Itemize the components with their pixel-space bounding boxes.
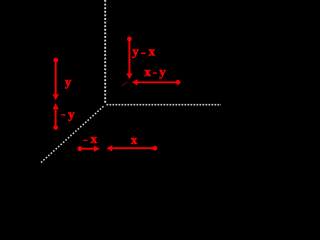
vector -y (upward arrow) <box>52 103 58 130</box>
faint streak below x-y arrowhead <box>121 82 127 86</box>
svg-text:x: x <box>131 132 138 147</box>
svg-text:x: x <box>144 64 151 79</box>
vector -x (rightward arrow) <box>77 146 99 152</box>
svg-text:x: x <box>91 131 98 146</box>
axis: diagonal dotted line <box>40 106 103 163</box>
svg-text:y: y <box>68 107 75 122</box>
svg-text:y: y <box>65 74 72 89</box>
svg-text:y: y <box>159 64 166 79</box>
svg-text:y: y <box>132 44 139 59</box>
axis: horizontal dotted line <box>107 104 222 106</box>
axis: vertical dotted line <box>104 0 106 104</box>
label -x <box>83 140 87 141</box>
vector y (downward arrow) <box>53 58 59 101</box>
label -y <box>61 114 65 115</box>
svg-text:x: x <box>149 44 156 59</box>
vector x (leftward arrow) <box>106 145 157 151</box>
vector y-x (downward arrow) <box>126 37 132 80</box>
vector x-y (leftward arrow) <box>132 79 181 85</box>
